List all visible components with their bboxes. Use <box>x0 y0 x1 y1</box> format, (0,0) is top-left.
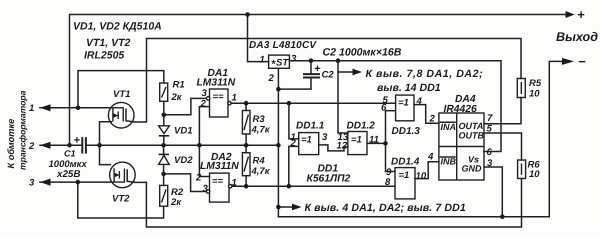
svg-text:DD1.3: DD1.3 <box>392 126 421 137</box>
svg-text:R5: R5 <box>529 78 542 89</box>
svg-text:4: 4 <box>416 96 423 107</box>
svg-text:6: 6 <box>487 147 493 158</box>
svg-text:7: 7 <box>487 113 493 124</box>
svg-text:4,7к: 4,7к <box>251 125 271 136</box>
svg-text:3: 3 <box>29 178 35 189</box>
svg-text:10: 10 <box>529 169 540 180</box>
svg-text:1: 1 <box>232 178 237 189</box>
svg-text:11: 11 <box>369 135 379 146</box>
svg-text:DA3 L4810CV: DA3 L4810CV <box>249 40 317 51</box>
svg-text:ST: ST <box>276 58 289 69</box>
svg-text:2: 2 <box>195 173 202 184</box>
svg-text:3: 3 <box>203 184 209 195</box>
svg-text:OUTB: OUTB <box>459 131 485 141</box>
svg-text:R4: R4 <box>253 156 266 167</box>
svg-text:VT1, VT2: VT1, VT2 <box>86 37 131 49</box>
svg-text:INA: INA <box>441 122 457 132</box>
svg-text:3: 3 <box>487 158 493 169</box>
svg-text:2к: 2к <box>170 197 182 208</box>
svg-text:R3: R3 <box>253 114 266 125</box>
svg-text:1: 1 <box>232 93 237 104</box>
svg-text:DD1.4: DD1.4 <box>391 157 420 168</box>
svg-text:IR4426: IR4426 <box>444 104 477 115</box>
svg-text:4: 4 <box>427 152 434 163</box>
svg-text:2: 2 <box>28 141 35 152</box>
svg-text:DD1.1: DD1.1 <box>296 121 325 132</box>
svg-text:х25В: х25В <box>56 169 80 180</box>
svg-text:С1: С1 <box>64 149 76 159</box>
svg-text:+: + <box>577 7 585 22</box>
svg-text:К561ЛП2: К561ЛП2 <box>307 174 351 185</box>
svg-text:INB: INB <box>441 157 457 167</box>
svg-text:DD1.2: DD1.2 <box>347 121 376 132</box>
svg-text:=1: =1 <box>399 170 410 181</box>
svg-text:3: 3 <box>202 88 208 99</box>
svg-text:==: == <box>213 92 225 103</box>
svg-text:VT2: VT2 <box>112 194 130 205</box>
svg-text:GND: GND <box>462 164 483 174</box>
svg-text:3: 3 <box>322 132 328 143</box>
svg-text:1: 1 <box>29 103 34 114</box>
svg-text:==: == <box>212 176 224 187</box>
svg-text:VD2: VD2 <box>174 155 193 166</box>
svg-text:C2: C2 <box>322 70 335 81</box>
svg-text:IRL2505: IRL2505 <box>84 50 124 62</box>
svg-text:LM311N: LM311N <box>197 78 236 89</box>
svg-text:К выв. 7,8 DA1, DA2;: К выв. 7,8 DA1, DA2; <box>366 68 484 80</box>
svg-text:К выв. 4 DA1, DA2; выв. 7 DD1: К выв. 4 DA1, DA2; выв. 7 DD1 <box>305 202 466 214</box>
svg-text:8: 8 <box>385 177 391 188</box>
svg-text:VT1: VT1 <box>113 89 130 100</box>
svg-text:OUTA: OUTA <box>459 121 484 131</box>
svg-text:+: + <box>314 63 321 75</box>
svg-text:3: 3 <box>291 54 297 65</box>
svg-text:+: + <box>74 135 81 147</box>
svg-text:12: 12 <box>337 141 348 152</box>
svg-text:2: 2 <box>429 114 436 125</box>
svg-text:10: 10 <box>416 171 427 182</box>
svg-text:LM311N: LM311N <box>200 161 239 172</box>
svg-text:К обмотке: К обмотке <box>6 119 16 169</box>
svg-text:=1: =1 <box>351 135 362 146</box>
svg-text:выв. 14 DD1: выв. 14 DD1 <box>377 82 441 94</box>
svg-text:VD1, VD2 КД510А: VD1, VD2 КД510А <box>73 21 162 33</box>
svg-text:−: − <box>578 54 586 69</box>
svg-text:С2 1000мк×16В: С2 1000мк×16В <box>323 46 402 58</box>
svg-text:2: 2 <box>200 99 207 110</box>
svg-text:=1: =1 <box>301 135 312 146</box>
svg-text:2: 2 <box>290 138 297 149</box>
svg-text:6: 6 <box>381 103 387 114</box>
svg-text:5: 5 <box>487 124 493 135</box>
svg-text:2к: 2к <box>171 92 183 103</box>
svg-text:=1: =1 <box>398 98 409 109</box>
svg-text:4,7к: 4,7к <box>251 166 271 177</box>
svg-text:1: 1 <box>260 55 265 66</box>
svg-text:Выход: Выход <box>556 30 598 44</box>
svg-text:2: 2 <box>268 73 275 84</box>
svg-text:трансформатора: трансформатора <box>18 90 28 170</box>
svg-text:VD1: VD1 <box>174 126 192 137</box>
svg-text:R1: R1 <box>173 80 185 91</box>
svg-text:10: 10 <box>529 89 540 100</box>
